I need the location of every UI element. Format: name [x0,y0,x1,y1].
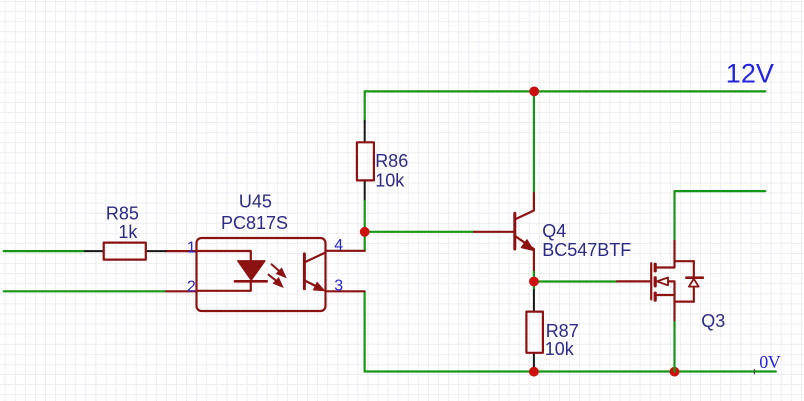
junction node base [360,227,370,237]
wire R86 bottom segment [364,201,366,232]
svg-text:R86: R86 [375,151,408,171]
opto light arrows [269,264,286,287]
resistor R86 [357,121,374,201]
wire collector net [533,91,535,193]
junction node Q3-0V [670,367,680,377]
svg-text:Q3: Q3 [701,311,725,331]
svg-text:PC817S: PC817S [221,213,288,233]
opto phototransistor [304,253,325,291]
wire 0V rail [365,370,776,372]
junction node emitter [529,277,539,287]
transistor Q4 [474,193,534,272]
junction node R87-0V [529,367,539,377]
svg-text:1: 1 [187,239,196,256]
wire drain top [675,191,766,241]
svg-text:1k: 1k [118,222,138,242]
svg-text:R85: R85 [106,203,139,223]
opto pin 4 lead [326,250,365,252]
wire base net [365,231,474,233]
svg-text:Q4: Q4 [542,221,566,241]
resistor R87 [526,290,543,372]
svg-text:BC547BTF: BC547BTF [542,240,631,260]
net tick 0V [753,369,755,373]
opto LED [197,251,267,291]
wire net in2 [4,290,165,292]
svg-text:10k: 10k [375,171,405,191]
svg-text:10k: 10k [545,339,575,359]
junction node 12V [529,87,539,97]
wire emitter stub [533,272,535,282]
opto pin 3 lead [326,290,365,292]
mosfet Q3 [617,241,703,322]
svg-text:U45: U45 [239,192,272,212]
svg-text:2: 2 [187,279,196,296]
resistor R85 [85,243,166,260]
wire pin4 link [364,232,366,251]
wire emitter to gate [534,280,617,282]
wire pin3 down [364,291,366,371]
wire source [673,322,675,372]
svg-text:12V: 12V [726,59,774,89]
wire R86 top segment [364,91,366,121]
svg-text:4: 4 [334,237,343,254]
svg-text:3: 3 [334,278,343,295]
wire net in1 [4,250,85,252]
wire 12V rail [365,90,766,92]
svg-text:0V: 0V [759,352,781,372]
wire emitter to R87 [533,282,535,291]
opto pin 2 lead [165,290,197,292]
opto pin 1 lead [166,250,197,252]
optocoupler U45 box [197,238,326,311]
